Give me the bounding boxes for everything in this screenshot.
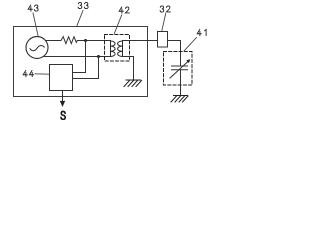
label 43	[28, 5, 38, 36]
ground under capacitor	[171, 96, 188, 103]
label S	[61, 111, 65, 119]
wire component 32 to capacitor	[168, 41, 181, 67]
output arrow	[60, 91, 65, 108]
wire secondary bottom to ground	[123, 57, 134, 81]
wire source to resistor	[46, 40, 62, 42]
wire secondary to component 32	[123, 40, 158, 42]
wire top tap down to box 44 upper input	[73, 41, 86, 73]
AC source 43	[26, 37, 48, 59]
detector box 44	[50, 65, 73, 91]
wire resistor to transformer primary	[77, 40, 110, 42]
junction node at top wire	[84, 39, 87, 42]
wire capacitor to ground	[180, 70, 182, 96]
wire bottom tap down to box 44 lower input	[73, 57, 99, 79]
component 32	[158, 32, 168, 48]
capacitor dashed box 41	[164, 52, 193, 86]
transformer primary winding	[111, 41, 116, 57]
label 41	[184, 30, 206, 52]
transformer dashed box 42	[105, 35, 130, 62]
ground under transformer	[124, 80, 142, 87]
enclosure box 33	[14, 27, 148, 97]
resistor	[61, 37, 77, 44]
junction node at bottom wire	[97, 55, 100, 58]
label 42	[114, 7, 129, 34]
variable capacitor	[170, 59, 190, 78]
label 44	[23, 71, 49, 77]
label 33	[77, 2, 88, 25]
label 32	[160, 6, 170, 31]
wire source bottom to transformer primary bottom	[43, 56, 110, 58]
transformer secondary winding	[118, 41, 123, 57]
